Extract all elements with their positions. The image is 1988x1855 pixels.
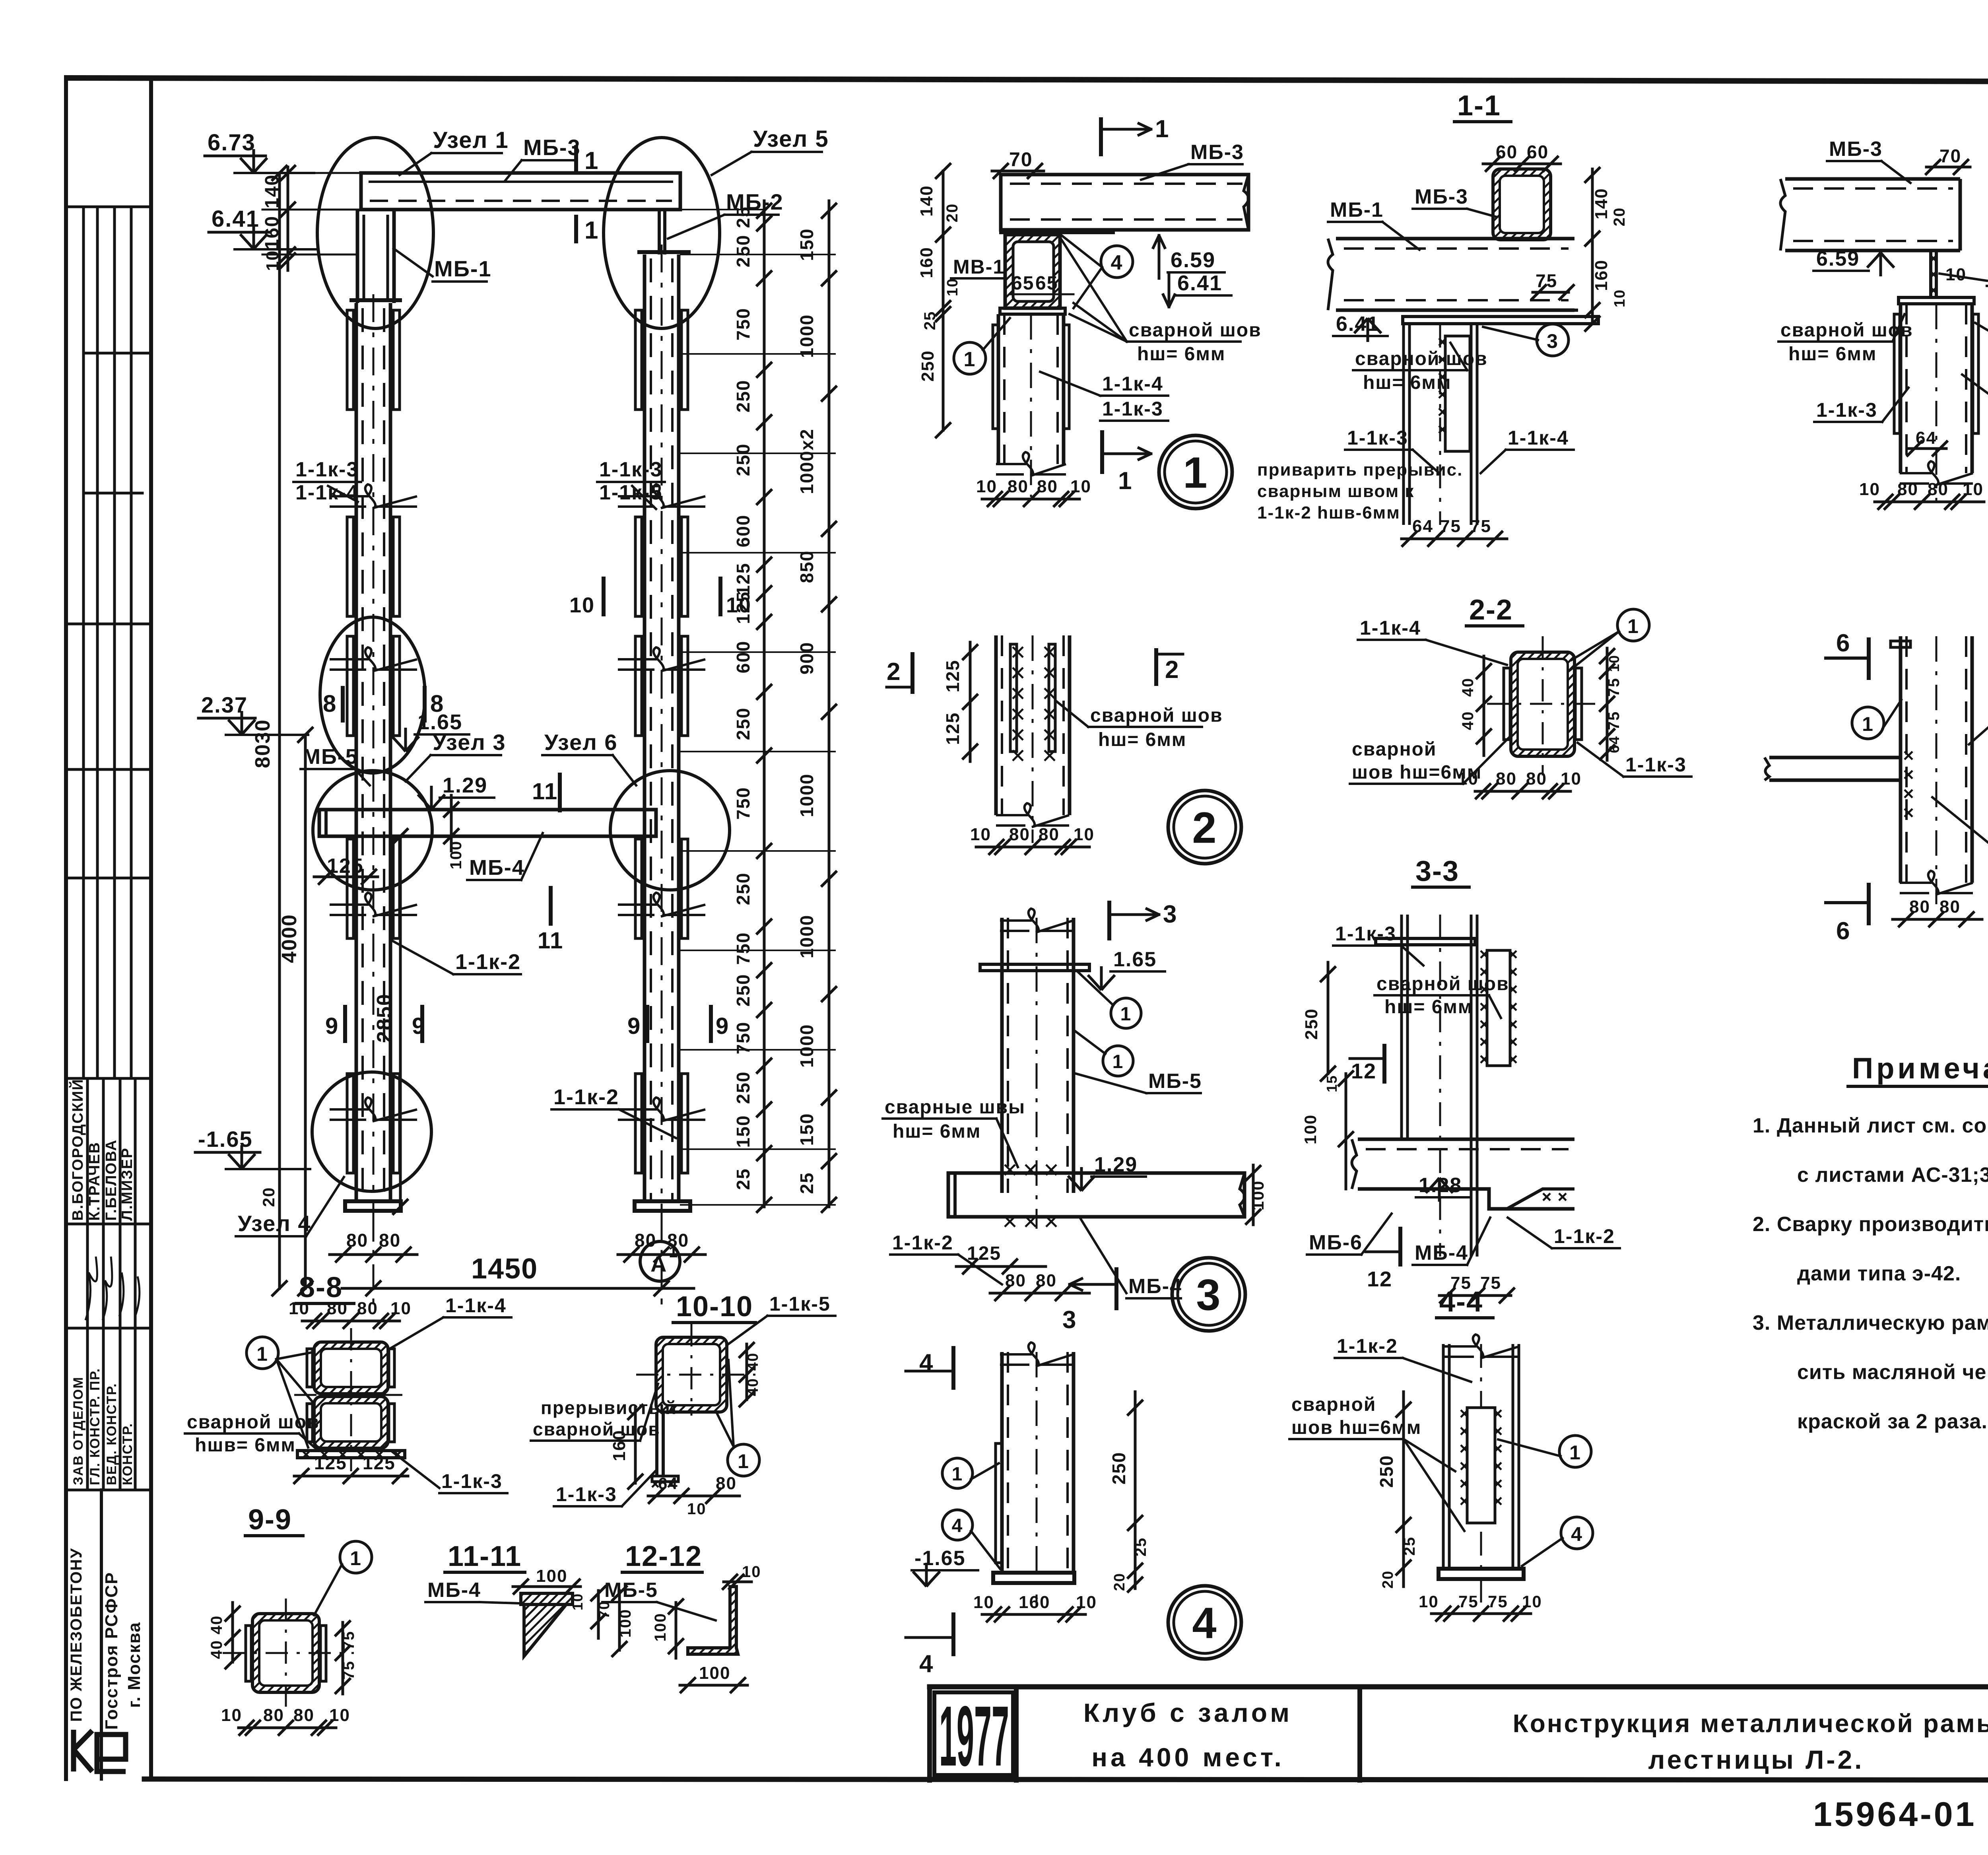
svg-text:МБ-4: МБ-4 [469,856,525,880]
section 2-2: side plates [1504,668,1510,740]
section 10-10: right dims 40 40 [745,1344,748,1400]
svg-text:160: 160 [917,247,936,278]
svg-text:1-1к-3: 1-1к-3 [1335,923,1396,945]
svg-text:80: 80 [1009,825,1030,844]
svg-text:10: 10 [1611,289,1628,307]
section 4-4: column [1443,1344,1449,1569]
svg-text:1.65: 1.65 [1113,948,1157,971]
svg-text:1-1к-2: 1-1к-2 [1554,1225,1615,1247]
svg-text:40: 40 [745,1352,761,1371]
svg-text:1-1к-2 hшв-6мм: 1-1к-2 hшв-6мм [1257,503,1400,523]
svg-text:80: 80 [1037,477,1058,496]
svg-text:4: 4 [919,1650,934,1678]
svg-text:9: 9 [325,1013,339,1039]
svg-text:250: 250 [733,443,753,476]
svg-text:1-1к-3: 1-1к-3 [1347,427,1408,449]
svg-text:В.БОГОРОДСКИЙ: В.БОГОРОДСКИЙ [68,1078,86,1221]
svg-text:25: 25 [1132,1537,1149,1557]
detail 1: dim 70 [992,170,1044,173]
svg-text:сварным швом к: сварным швом к [1257,482,1414,501]
svg-text:70: 70 [1939,146,1961,166]
detail 1: circle 1 callout [954,342,986,374]
svg-text:850: 850 [796,550,817,583]
section 3-3: bottom dims [1439,1294,1511,1297]
svg-text:80: 80 [716,1474,737,1493]
svg-text:125: 125 [733,563,753,596]
svg-text:10: 10 [726,593,751,617]
svg-text:hш= 6мм: hш= 6мм [1098,729,1186,750]
svg-text:ЗАВ ОТДЕЛОМ: ЗАВ ОТДЕЛОМ [71,1376,86,1485]
section 3-3: section 12 mark bottom [1398,1229,1402,1265]
svg-text:9: 9 [412,1013,425,1039]
svg-text:hш= 6мм: hш= 6мм [893,1121,981,1142]
svg-text:МБ-3: МБ-3 [1415,185,1468,208]
svg-text:1: 1 [1862,713,1874,735]
svg-text:20: 20 [1111,1573,1128,1591]
svg-text:1-1к-3: 1-1к-3 [295,458,359,481]
svg-text:64: 64 [1606,736,1622,753]
svg-text:1-1: 1-1 [1457,90,1501,122]
svg-text:80: 80 [1897,480,1918,499]
svg-text:80: 80 [1036,1271,1057,1290]
section 2-2: left dims 40 40 [1483,656,1485,756]
svg-text:125: 125 [942,712,963,745]
svg-text:10: 10 [973,1593,994,1612]
dim 8030 [278,173,281,1288]
svg-text:9-9: 9-9 [248,1504,292,1536]
svg-text:1-1к-2: 1-1к-2 [455,950,521,974]
svg-text:64: 64 [1916,428,1937,448]
detail 6: beam from left [1769,758,1901,780]
svg-text:1-1к-4: 1-1к-4 [1360,617,1421,639]
detail 6: section mark bottom [1867,885,1871,923]
svg-text:МБ-4: МБ-4 [1415,1241,1468,1265]
svg-text:75: 75 [1488,1592,1508,1611]
svg-text:сварной: сварной [1352,739,1437,760]
section 8-8: upper tube [314,1342,388,1394]
svg-text:40: 40 [208,1615,225,1635]
dim 1450 [342,1287,694,1290]
svg-text:80: 80 [293,1705,315,1725]
section 9 marks [343,1007,347,1041]
svg-text:ГЛ. КОНСТР. ПР.: ГЛ. КОНСТР. ПР. [87,1368,103,1485]
svg-text:80: 80 [379,1230,401,1251]
svg-text:100: 100 [1301,1114,1320,1144]
detail 5: bottom dims [1875,501,1984,503]
svg-text:8030: 8030 [251,719,274,768]
svg-text:Л.МИЗЕР: Л.МИЗЕР [119,1147,136,1221]
svg-text:4: 4 [952,1515,963,1536]
svg-text:100: 100 [617,1609,634,1638]
svg-text:60: 60 [1527,142,1549,162]
svg-text:4: 4 [1571,1523,1583,1545]
section 8-8: bottom plate [297,1451,405,1458]
svg-text:250: 250 [1109,1452,1129,1485]
svg-text:1: 1 [669,1243,678,1261]
svg-text:Госстроя РСФСР: Госстроя РСФСР [102,1572,121,1730]
detail 5: beam MB-3 [1785,179,1960,251]
svg-text:80: 80 [1526,769,1547,789]
section 2-2: circle 1 callout [1617,609,1649,641]
svg-text:3. Металлическую раму покра-: 3. Металлическую раму покра- [1753,1311,1988,1334]
svg-text:Узел 1: Узел 1 [433,127,509,153]
svg-text:10: 10 [1076,1593,1097,1612]
svg-text:МБ-3: МБ-3 [1829,138,1883,161]
svg-text:1-1к-3: 1-1к-3 [441,1470,503,1492]
svg-text:1: 1 [952,1464,963,1485]
svg-text:40: 40 [1459,678,1477,697]
svg-text:1000: 1000 [796,773,817,817]
svg-text:hш= 6мм: hш= 6мм [1788,344,1877,365]
section 2-2: bottom dims [1475,790,1571,793]
detail 3: dims 80 80 [990,1292,1089,1295]
svg-text:80: 80 [1909,897,1930,917]
section 8 marks [341,688,345,721]
svg-text:на 400 мест.: на 400 мест. [1091,1742,1285,1772]
svg-text:100: 100 [536,1566,567,1586]
detail 2: weld x marks [1013,647,1023,657]
svg-text:11: 11 [532,779,558,804]
svg-text:сварной шов: сварной шов [187,1412,320,1433]
svg-text:4-4: 4-4 [1439,1286,1483,1318]
svg-text:МВ-1: МВ-1 [953,256,1005,278]
detail 3: weld x row [1005,1165,1015,1175]
svg-text:1-1к-2: 1-1к-2 [892,1231,953,1254]
svg-text:1-1к-4: 1-1к-4 [295,481,359,504]
svg-text:А: А [650,1251,667,1276]
svg-text:600: 600 [733,515,753,548]
svg-text:с листами АС-31;33: с листами АС-31;33 [1797,1164,1988,1187]
svg-text:11-11: 11-11 [448,1540,522,1572]
svg-text:75: 75 [1470,517,1491,536]
detail 4: circle 1 callout [942,1458,973,1488]
uzel 4 circle [312,1072,431,1191]
dim 2850 [399,836,402,1207]
svg-text:75: 75 [1536,270,1557,291]
svg-text:10: 10 [329,1705,350,1725]
section 8-8: side plates [307,1349,313,1387]
section 10-10: dim 160 [634,1408,637,1483]
svg-text:МБ-6: МБ-6 [1309,1231,1363,1254]
svg-text:сварной шов: сварной шов [1376,973,1509,995]
detail 2: bottom break [996,803,1069,827]
border frame [67,78,1988,82]
svg-text:1-1к-3: 1-1к-3 [1816,399,1877,421]
svg-text:10: 10 [289,1299,310,1318]
left small dims 140/160/10 [287,167,289,270]
detail 3: section mark bottom [1114,1269,1118,1308]
svg-text:1: 1 [584,147,599,175]
svg-text:Клуб с залом: Клуб с залом [1083,1698,1293,1727]
section 1-1: dim 75 [1533,291,1569,294]
svg-text:1-1к-5: 1-1к-5 [769,1293,831,1315]
svg-text:3: 3 [1196,1271,1221,1320]
svg-text:3: 3 [1163,901,1177,928]
right dim chain outer [828,201,831,1207]
svg-text:лестницы Л-2.: лестницы Л-2. [1648,1745,1864,1774]
svg-text:2-2: 2-2 [1469,594,1513,626]
detail 5: column [1901,304,1972,473]
svg-text:10: 10 [1561,769,1582,789]
uzel 3 circle [313,771,432,890]
svg-text:hшв= 6мм: hшв= 6мм [195,1435,296,1456]
section 10-10: left leg [657,1412,663,1476]
svg-text:сварной шов: сварной шов [1129,320,1262,341]
svg-text:1: 1 [1118,467,1132,495]
svg-text:10: 10 [742,1563,761,1581]
svg-text:250: 250 [733,707,753,740]
svg-text:40: 40 [745,1378,761,1396]
svg-text:12-12: 12-12 [625,1540,702,1572]
detail 3: top plate [980,964,1089,971]
svg-text:2: 2 [1165,656,1179,684]
svg-text:ПО ЖЕЛЕЗОБЕТОНУ: ПО ЖЕЛЕЗОБЕТОНУ [68,1548,85,1722]
right dim chain inner [763,201,766,1207]
svg-text:750: 750 [733,932,753,965]
svg-text:1-1к-3: 1-1к-3 [556,1483,617,1505]
svg-text:1: 1 [584,217,599,244]
svg-text:4000: 4000 [278,914,301,963]
svg-text:1: 1 [964,348,976,371]
svg-text:100: 100 [652,1613,669,1642]
svg-text:125: 125 [314,1453,347,1473]
svg-text:10: 10 [390,1299,412,1318]
section 9-9: circle 1 callout [340,1541,372,1573]
svg-text:hш= 6мм: hш= 6мм [1137,344,1225,365]
detail 6: column [1901,636,1972,883]
svg-text:40: 40 [208,1640,225,1659]
uzel 6 circle [610,771,730,890]
svg-text:250: 250 [1302,1008,1321,1039]
section 10 marks [602,579,606,614]
detail 1: beam MB-3 [1001,175,1248,230]
section 4-4: bottom dims [1431,1612,1531,1615]
section 4-4: left dims [1402,1392,1405,1587]
svg-text:1-1к-2: 1-1к-2 [1337,1335,1398,1357]
svg-text:hш= 6мм: hш= 6мм [1363,372,1451,393]
svg-text:10: 10 [1458,769,1479,789]
detail 1: detail circle 1 [1159,435,1232,509]
svg-text:20: 20 [944,203,961,223]
svg-text:1: 1 [1569,1441,1581,1464]
svg-text:1-1к-3: 1-1к-3 [1625,754,1687,776]
svg-text:сварной шов: сварной шов [1355,348,1488,369]
svg-text:Примечания.: Примечания. [1852,1052,1988,1085]
svg-text:Конструкция металлической рамы: Конструкция металлической рамы [1513,1709,1988,1738]
svg-text:250: 250 [733,974,753,1007]
svg-text:25: 25 [921,311,939,330]
svg-text:20: 20 [1611,207,1628,227]
svg-text:6: 6 [1836,917,1850,945]
svg-text:10: 10 [687,1500,707,1518]
section 10-10: channel tube [656,1337,727,1412]
svg-text:1977: 1977 [939,1688,1009,1784]
svg-text:160: 160 [610,1430,629,1461]
section 9-9: tube [252,1614,319,1692]
section 4-4: circle 1 callout [1559,1435,1591,1467]
svg-text:3: 3 [1062,1306,1077,1334]
section 8-8: bottom dims 125 125 [294,1475,408,1478]
svg-text:80: 80 [327,1299,348,1318]
svg-text:hш= 6мм: hш= 6мм [1384,996,1473,1018]
svg-text:прерывистый: прерывистый [541,1397,677,1418]
detail 3: dim 100 [1252,1165,1255,1225]
section 3-3: cover plate hatched [1487,950,1510,1066]
section 3-3: beam with step [1358,1139,1574,1209]
svg-text:1. Данный лист см. совместно: 1. Данный лист см. совместно [1753,1114,1988,1137]
svg-text:1000: 1000 [796,314,817,358]
svg-text:125: 125 [327,855,364,878]
svg-text:80: 80 [1939,897,1961,917]
detail 6: circle 1 callout [1852,707,1884,739]
detail 4: right dims [1134,1392,1137,1589]
svg-text:250: 250 [733,1071,753,1104]
svg-text:75: 75 [1605,711,1623,730]
svg-text:15964-01: 15964-01 [1813,1795,1976,1834]
svg-text:12: 12 [1367,1267,1392,1291]
svg-text:75: 75 [1440,517,1461,536]
svg-text:10: 10 [1606,655,1622,672]
detail 1: left dim chain [942,171,945,430]
svg-text:2. Сварку производить электро-: 2. Сварку производить электро- [1753,1213,1988,1236]
detail 5: dim 64 [1908,447,1946,450]
svg-text:10: 10 [970,825,991,844]
svg-text:Узел 4: Узел 4 [238,1211,311,1236]
svg-text:1: 1 [256,1343,268,1365]
svg-text:Г.БЕЛОВА: Г.БЕЛОВА [103,1139,120,1221]
svg-text:100: 100 [699,1663,730,1683]
svg-text:160: 160 [1592,259,1611,291]
svg-text:МБ-3: МБ-3 [523,135,581,160]
svg-text:10: 10 [1522,1592,1542,1611]
section 1-1: columns below [1404,324,1409,525]
svg-text:160: 160 [1019,1593,1050,1612]
detail 6: bottom break [1900,871,1973,895]
stamp signatures [85,1257,140,1320]
section cut 11 marks [558,775,562,810]
svg-text:12: 12 [1351,1059,1376,1083]
section 12-12: dims [724,1581,751,1583]
svg-text:6.59: 6.59 [1816,247,1860,270]
svg-text:250: 250 [918,350,938,381]
svg-text:150: 150 [733,1115,753,1148]
svg-text:приварить прерывис.: приварить прерывис. [1257,460,1463,480]
svg-text:25: 25 [1401,1536,1418,1556]
detail 6: bottom dims [1893,918,1982,921]
svg-text:1-1к-3: 1-1к-3 [1102,398,1163,420]
svg-text:11: 11 [538,928,563,954]
dim 125 under beam left [314,876,378,878]
section cut 1 marks on beam [574,147,578,172]
svg-text:10: 10 [1070,477,1091,496]
node A1 circle [640,1241,680,1281]
detail 5: MB-2 web [1931,251,1936,297]
detail 2: dims 125 125 [969,642,972,761]
svg-text:1-1к-5: 1-1к-5 [599,481,662,504]
svg-text:100: 100 [1248,1180,1267,1210]
svg-text:Узел 3: Узел 3 [433,730,506,755]
detail 3: circle 1 callouts [1111,998,1141,1028]
detail 1: circle 4 callout [1101,246,1133,278]
svg-text:75: 75 [340,1631,357,1650]
section 10-10: centerlines [691,1324,693,1416]
svg-text:сварные швы: сварные швы [885,1097,1025,1118]
section 2-2: right dims [1606,648,1609,760]
svg-text:75: 75 [1458,1592,1479,1611]
svg-text:25: 25 [796,1172,817,1194]
detail 4: column [1002,1352,1074,1573]
detail 4: base plate [993,1573,1074,1583]
section 3-3: section 12 mark top [1382,1046,1386,1082]
section 3-3: columns [1402,915,1408,1139]
svg-text:140: 140 [917,185,936,216]
beam MB-3 top [361,173,680,210]
svg-text:2: 2 [887,658,901,686]
svg-text:4: 4 [919,1349,934,1377]
section 11-11: angle with gusset [521,1593,573,1604]
svg-text:3: 3 [1547,330,1559,352]
svg-text:10: 10 [944,278,961,296]
section 8-8: lower tube [314,1397,388,1448]
svg-text:1000х2: 1000х2 [796,428,817,494]
detail 4: detail circle 4 [1168,1586,1241,1659]
svg-text:1000: 1000 [796,915,817,958]
svg-text:125: 125 [942,660,963,693]
svg-text:сварной шов: сварной шов [1090,705,1223,726]
svg-text:10: 10 [569,593,595,617]
section 1-1: bottom dims [1402,538,1507,540]
svg-text:80: 80 [1039,825,1060,844]
section 12-12: angle [688,1587,738,1654]
svg-text:65: 65 [1035,273,1058,294]
svg-text:65: 65 [1011,273,1034,294]
section 11-11: dims [513,1585,580,1588]
svg-text:75: 75 [340,1661,357,1680]
detail 3: section mark top [1107,903,1111,938]
detail 3: detail circle 3 [1172,1258,1245,1331]
detail 1: column body [998,314,1064,464]
section 1-1: right dims [1591,169,1594,324]
svg-text:1: 1 [1112,1051,1124,1072]
section 1-1: MB-3 tube [1493,169,1551,240]
svg-text:80: 80 [357,1299,378,1318]
svg-text:80: 80 [1928,480,1949,499]
svg-text:9: 9 [716,1013,729,1039]
section 4-4: base plate [1439,1569,1524,1579]
section 1-1: dims 60 60 [1483,163,1561,165]
svg-text:6: 6 [1836,629,1850,657]
svg-text:140: 140 [1592,188,1611,219]
svg-text:10: 10 [1963,480,1984,499]
svg-text:1: 1 [1120,1004,1132,1025]
svg-text:шов hш=6мм: шов hш=6мм [1291,1417,1421,1438]
svg-text:15: 15 [1324,1075,1340,1092]
svg-text:-1.65: -1.65 [198,1127,253,1152]
svg-text:МБ-4: МБ-4 [427,1579,481,1602]
svg-text:1: 1 [350,1547,362,1569]
section 8-8: centerlines [350,1328,352,1471]
detail 2: bottom dims [976,846,1089,849]
svg-text:600: 600 [733,641,753,674]
stamp KB logo [74,1730,92,1771]
section 2-2: tube section [1511,652,1574,756]
svg-text:г. Москва: г. Москва [124,1622,144,1708]
detail 1: bottom dims [982,498,1079,501]
section 3-3: dim 250 [1327,962,1330,1074]
section 1-1: circle 3 callout [1537,324,1569,356]
svg-text:1: 1 [738,1450,749,1472]
detail 4: circle 4 callout [942,1510,973,1540]
